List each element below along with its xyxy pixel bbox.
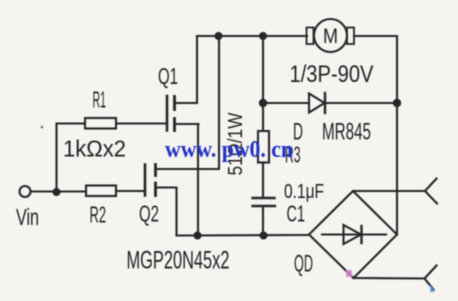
- wire top rail right of motor: [354, 35, 397, 37]
- transistor Q2 channel bottom segment: [154, 183, 157, 196]
- wire Q1 source lead: [175, 123, 199, 125]
- diode D MR845: [309, 94, 325, 113]
- svg-text:1/3P-90V: 1/3P-90V: [290, 61, 374, 88]
- wire right rail down: [396, 36, 398, 235]
- node top rail R3 junction dot: [259, 32, 267, 40]
- node A junction dot: [53, 188, 61, 196]
- wire AC terminal bottom: [354, 277, 425, 280]
- magenta artifact at bridge bottom vertex: [346, 270, 352, 277]
- wire top rail left: [197, 35, 307, 37]
- svg-text:Q2: Q2: [139, 201, 159, 227]
- transistor Q1 gate bar: [166, 96, 169, 131]
- wire Q2 drain lead: [156, 168, 220, 170]
- svg-text:Vin: Vin: [16, 204, 39, 230]
- wire diode anode: [263, 102, 309, 104]
- svg-text:R2: R2: [90, 202, 107, 228]
- motor M body: [314, 19, 347, 52]
- blue arrow artifact at bottom AC terminal: [430, 285, 435, 293]
- svg-text:R1: R1: [93, 87, 107, 113]
- resistor R3: [258, 131, 269, 163]
- bridge QD inner diode: [322, 233, 386, 235]
- svg-text:www. pw0. cn: www. pw0. cn: [165, 137, 293, 163]
- transistor Q1 channel top segment: [173, 97, 176, 110]
- transistor Q2 channel top segment: [154, 165, 157, 176]
- wire R3 column from top rail: [262, 36, 264, 131]
- wire input to node A: [31, 190, 53, 192]
- wire Q1 drain to top rail: [196, 36, 198, 103]
- wire Q2 drain up to top rail: [218, 36, 220, 169]
- wire Q2 source lead: [156, 188, 177, 236]
- bridge rectifier QD diamond: [309, 191, 397, 278]
- resistor R2: [86, 186, 116, 197]
- motor M brush left: [307, 28, 314, 45]
- input terminal Vin: [20, 186, 31, 197]
- node top rail Q2 junction dot: [215, 32, 223, 40]
- svg-text:Q1: Q1: [158, 63, 178, 89]
- node bottom C1 junction dot: [260, 232, 268, 240]
- svg-text:MR845: MR845: [322, 119, 371, 146]
- transistor Q1 channel bottom segment: [173, 119, 176, 131]
- AC terminal top fork: [425, 179, 437, 192]
- wire diode cathode: [325, 102, 397, 104]
- wire R2 to Q2 gate: [116, 190, 144, 192]
- scan speck: [41, 126, 44, 129]
- svg-text:M: M: [323, 25, 338, 48]
- wire node A to R2: [57, 190, 87, 192]
- node diode right junction dot: [393, 99, 401, 107]
- resistor R1: [85, 118, 116, 129]
- AC terminal bottom fork: [425, 266, 437, 279]
- svg-text:MGP20N45x2: MGP20N45x2: [127, 247, 230, 275]
- node diode left junction dot: [259, 99, 267, 107]
- wire R3 to C1: [262, 163, 264, 198]
- svg-text:C1: C1: [287, 201, 306, 227]
- wire AC terminal top: [353, 190, 425, 192]
- node bottom Q1 source junction dot: [194, 232, 202, 240]
- transistor Q2 gate bar: [144, 165, 147, 196]
- svg-text:QD: QD: [294, 251, 313, 278]
- capacitor C1: [253, 197, 275, 199]
- wire bottom node line: [177, 234, 310, 237]
- wire C1 to bottom node: [262, 206, 264, 236]
- wire Q1 drain lead: [175, 102, 198, 104]
- wire R1 to Q1 gate: [116, 122, 166, 124]
- wire Q1 source down to bottom node: [197, 124, 199, 236]
- svg-text:1kΩx2: 1kΩx2: [63, 136, 126, 162]
- wire node A up to R1 branch: [57, 124, 86, 193]
- motor M brush right: [347, 28, 354, 45]
